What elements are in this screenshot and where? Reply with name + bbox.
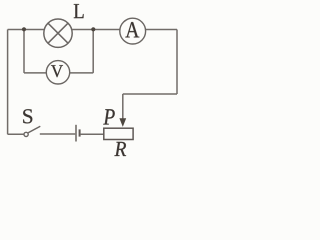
label R — [114, 142, 126, 156]
junction node left — [22, 27, 26, 31]
junction node right — [91, 27, 95, 31]
label L — [74, 4, 84, 18]
wire switch to battery — [40, 133, 75, 135]
wire switch left stub — [8, 133, 24, 135]
lamp L — [44, 19, 72, 47]
rheostat R — [104, 128, 133, 139]
wire left rail — [7, 30, 9, 135]
wire slider arrow shaft — [122, 94, 124, 119]
wire ammeter to top-right corner — [146, 29, 177, 31]
wire top-left segment — [8, 29, 44, 31]
battery cell — [76, 125, 80, 142]
label P — [103, 109, 114, 124]
slider arrowhead — [119, 118, 126, 127]
wire bottom-right horizontal — [123, 93, 177, 95]
wire voltmeter branch right vertical — [92, 30, 94, 73]
label S — [23, 109, 32, 123]
wire voltmeter branch left horizontal — [24, 72, 46, 74]
wire right rail — [176, 30, 178, 95]
ammeter A — [120, 18, 146, 44]
wire voltmeter branch left vertical — [23, 30, 25, 73]
wire battery to rheostat — [81, 133, 104, 135]
wire lamp to ammeter — [72, 29, 120, 31]
voltmeter V — [46, 61, 69, 84]
switch S — [24, 126, 40, 136]
wire voltmeter branch right horizontal — [70, 72, 94, 74]
